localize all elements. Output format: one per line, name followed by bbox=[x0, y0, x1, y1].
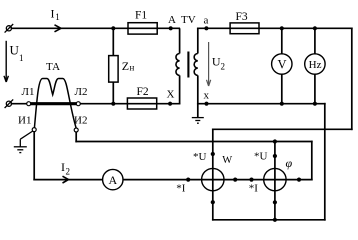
transformer TV secondary vertical bottom + ground lead bbox=[197, 75, 199, 117]
arrow I1 bbox=[55, 25, 62, 32]
arrow U1 bbox=[4, 41, 8, 82]
svg-text:И1: И1 bbox=[18, 115, 31, 127]
wire Hz meter branch bbox=[314, 28, 316, 103]
terminal input top (circle with slash) bbox=[5, 24, 14, 33]
svg-text:I: I bbox=[61, 160, 65, 174]
svg-text:*I: *I bbox=[176, 183, 186, 195]
wire I2 return vertical bbox=[311, 142, 313, 180]
node Hz top bbox=[313, 26, 317, 30]
svg-text:н: н bbox=[130, 63, 135, 73]
svg-text:V: V bbox=[277, 58, 286, 72]
wattmeter W circle bbox=[202, 168, 224, 190]
voltmeter V bbox=[272, 54, 292, 74]
wire И1 drop bbox=[33, 132, 35, 180]
transformer TV primary vertical top bbox=[179, 28, 181, 53]
svg-text:И2: И2 bbox=[74, 115, 87, 127]
resistor Zн bbox=[109, 56, 118, 83]
wire bottom rail left (input to transformer X) bbox=[12, 103, 180, 105]
terminal input bottom (circle with slash) bbox=[5, 99, 14, 108]
current transformer TA primary (thick line) bbox=[29, 102, 79, 105]
wire Zн branch top bbox=[112, 28, 114, 55]
node phi bottom rail bbox=[273, 218, 277, 222]
transformer core bbox=[187, 52, 189, 78]
node X bbox=[168, 102, 172, 106]
wire top rail right (a to right edge) bbox=[198, 27, 352, 29]
node V bottom bbox=[280, 102, 284, 106]
node W I-terminal left bbox=[186, 178, 190, 182]
svg-text:2: 2 bbox=[66, 167, 71, 177]
phase meter circle bbox=[264, 168, 286, 190]
svg-text:1: 1 bbox=[19, 53, 24, 63]
ground at x bbox=[192, 118, 204, 124]
node V top bbox=[280, 26, 284, 30]
svg-text:TV: TV bbox=[181, 14, 196, 26]
wire I2 return horizontal (from И2) bbox=[76, 141, 312, 143]
node a bbox=[204, 26, 208, 30]
svg-text:a: a bbox=[204, 15, 209, 27]
fuse F1 bbox=[128, 23, 157, 34]
node A bbox=[169, 26, 173, 30]
node x bbox=[204, 102, 208, 106]
svg-text:F2: F2 bbox=[137, 86, 149, 98]
wire x rail right bbox=[198, 103, 325, 105]
ground at И1 bbox=[14, 131, 33, 153]
svg-text:x: x bbox=[204, 90, 210, 102]
wire wattmeter vertical bbox=[212, 129, 214, 220]
node phi I-terminal left bbox=[249, 178, 253, 182]
svg-text:Л2: Л2 bbox=[75, 86, 88, 98]
svg-text:φ: φ bbox=[286, 156, 293, 170]
svg-text:A: A bbox=[168, 14, 176, 26]
wire top rail left (input to transformer A) bbox=[12, 27, 180, 29]
node phi bottom terminal bbox=[273, 200, 277, 204]
arrow I2 bbox=[63, 176, 69, 183]
wire bottom box rail bbox=[213, 219, 325, 221]
node Zн bottom bbox=[111, 102, 115, 106]
svg-text:U: U bbox=[10, 43, 20, 58]
svg-text:*U: *U bbox=[193, 151, 207, 163]
svg-text:*I: *I bbox=[249, 183, 259, 195]
svg-text:Z: Z bbox=[122, 59, 129, 73]
transformer TV primary winding bbox=[176, 54, 180, 76]
svg-text:W: W bbox=[222, 155, 232, 166]
node phi I-terminal right bbox=[297, 178, 301, 182]
wire phase meter vertical bbox=[274, 142, 276, 220]
ammeter A bbox=[103, 169, 123, 189]
wire U rail to wattmeter bbox=[213, 128, 352, 130]
svg-text:Hz: Hz bbox=[309, 59, 322, 71]
current transformer TA secondary winding curve bbox=[34, 79, 76, 129]
node W bottom terminal bbox=[211, 200, 215, 204]
terminal Л2 bbox=[76, 102, 80, 106]
svg-text:ТА: ТА bbox=[46, 61, 60, 73]
node Hz bottom bbox=[313, 102, 317, 106]
svg-text:Л1: Л1 bbox=[22, 86, 35, 98]
terminal И2 bbox=[74, 128, 78, 132]
wire Zн branch bottom bbox=[112, 82, 114, 104]
svg-text:A: A bbox=[108, 173, 117, 187]
wire I2 rail bbox=[34, 179, 312, 181]
svg-text:I: I bbox=[51, 7, 55, 21]
svg-text:2: 2 bbox=[221, 62, 226, 72]
node Zн top bbox=[111, 26, 115, 30]
wire И2 drop bbox=[75, 132, 77, 141]
terminal И1 bbox=[32, 128, 36, 132]
frequency meter Hz bbox=[305, 54, 325, 74]
transformer TV secondary vertical top bbox=[197, 28, 199, 53]
svg-text:*U: *U bbox=[254, 151, 268, 163]
wire V meter branch bbox=[281, 28, 283, 103]
node W U-terminal bbox=[211, 152, 215, 156]
wire right box vertical bbox=[324, 104, 326, 220]
svg-text:F3: F3 bbox=[236, 11, 248, 23]
wire right vertical from top rail bbox=[351, 28, 353, 129]
terminal Л1 bbox=[27, 102, 31, 106]
fuse F2 bbox=[127, 98, 156, 109]
node phi U-terminal bbox=[273, 154, 277, 158]
svg-text:X: X bbox=[167, 89, 175, 101]
fuse F3 bbox=[230, 23, 259, 34]
arrow U2 (gray) bbox=[207, 42, 211, 86]
svg-text:1: 1 bbox=[55, 12, 60, 22]
node W I-terminal right bbox=[233, 178, 237, 182]
transformer TV secondary winding bbox=[194, 54, 198, 76]
transformer TV primary vertical bottom bbox=[179, 75, 181, 103]
node phi tap on I2 return bbox=[273, 139, 277, 143]
svg-text:F1: F1 bbox=[135, 10, 147, 22]
